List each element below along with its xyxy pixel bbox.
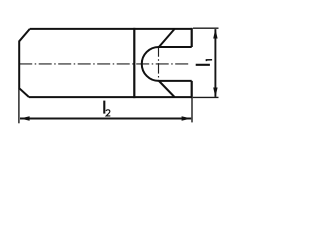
dimension line l2 <box>20 118 191 120</box>
slot bottom arc (semicircle bulging left) <box>142 47 159 81</box>
technical drawing: slotted fork-end (clevis) with dimensions l1 and l2 <box>0 0 238 140</box>
arrowhead l1 top <box>213 29 217 39</box>
upper slot diagonal (cut edge on cylinder) <box>159 29 175 47</box>
arrowhead l2 left <box>20 116 30 120</box>
horizontal centerline (dash-dot axis) <box>19 63 189 65</box>
extension line right (for l2) <box>191 98 193 123</box>
vertical center mark of slot arc <box>158 46 160 81</box>
extension line bottom (for l1) <box>193 96 219 98</box>
lower slot diagonal (cut edge on cylinder) <box>159 81 175 97</box>
extension line left (for l2) <box>18 89 20 124</box>
label l1 (rotated) <box>196 64 210 66</box>
slot bottom line <box>159 80 192 82</box>
arrowhead l2 right <box>182 116 192 120</box>
extension line top (for l1) <box>193 27 219 29</box>
arrowhead l1 bottom <box>213 88 217 98</box>
body outline: chamfered left end, top and bottom edges <box>19 29 192 97</box>
dimension line l1 <box>214 29 216 97</box>
label l2 <box>103 101 105 114</box>
divider line between shank and fork head <box>133 28 135 98</box>
fork head right edge (interrupted by open slot) <box>191 28 193 98</box>
slot top line <box>159 46 192 48</box>
